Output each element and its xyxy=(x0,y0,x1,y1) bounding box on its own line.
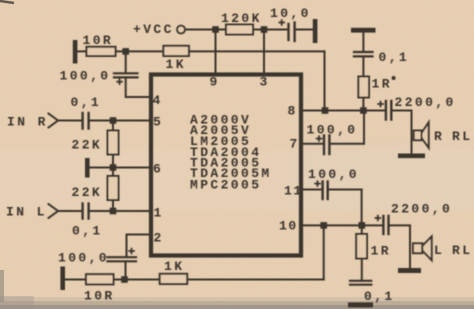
node 120K/pin3 junction xyxy=(261,26,268,33)
ground top-right xyxy=(351,28,376,33)
node VCC/pin9 junction xyxy=(212,26,219,33)
ground bar right of 10,0 xyxy=(313,19,318,43)
wire: rise from bottom rail to pin 10 line xyxy=(323,225,325,279)
capacitor 100,0 pin7 plates xyxy=(323,136,325,155)
node pin10/bottomrail junction xyxy=(320,222,327,229)
input arrow IN L xyxy=(49,204,59,218)
wire: pin7 cap up to pin 8 line xyxy=(363,111,365,144)
capacitor 0,1 bottom plates xyxy=(350,280,371,282)
wire: pin 10 output line xyxy=(303,224,383,226)
wire: pin 3 drop xyxy=(263,30,265,73)
capacitor 2200,0 bottom plates xyxy=(382,216,384,234)
wire: 1R to 0,1 cap xyxy=(361,259,363,281)
plus of 2200,0 top xyxy=(377,103,384,105)
wire: drop from 1K rail to pin 8 line xyxy=(324,51,326,110)
wire: ground to pin 6 xyxy=(90,167,149,169)
wire: pin 2 branch to 100,0 cap xyxy=(127,235,150,257)
wire: bottom feedback rail xyxy=(65,279,324,281)
wire: rail from 10,0 cap to ground xyxy=(295,29,313,31)
capacitor 2200,0 top plates xyxy=(385,101,387,120)
resistor 120K xyxy=(226,25,253,35)
plus of 2200,0 bottom xyxy=(375,217,382,219)
wire: 1K feedback rail xyxy=(78,50,325,52)
wire: IN R line xyxy=(58,120,82,122)
capacitor 100,0 top-left plates xyxy=(114,72,138,74)
node pin1 junction xyxy=(110,208,117,215)
capacitor 100,0 pin11 plates xyxy=(321,182,323,200)
ground bottom-right xyxy=(348,302,373,307)
capacitor 0,1 top-right plates xyxy=(354,51,373,53)
input arrow IN R xyxy=(49,114,59,128)
wire: cap to bottom rail xyxy=(125,262,127,279)
plus signs xyxy=(116,19,384,254)
ground under R speaker xyxy=(398,154,425,159)
resistor 10R bottom xyxy=(86,274,114,284)
resistor 1K top xyxy=(163,46,189,56)
resistor 10R top xyxy=(87,47,116,56)
ground top-left xyxy=(73,40,78,64)
wire: IN L line xyxy=(58,210,82,212)
wire: pin10 junction down through 1R to 0,1 xyxy=(361,225,363,234)
wire: cap to 1R xyxy=(362,57,364,76)
plus of 100,0 bottom-left xyxy=(128,250,135,252)
wire: pin 8 output line xyxy=(303,110,386,112)
resistor 1R top xyxy=(358,77,369,98)
wire: pin 11 line xyxy=(303,189,322,191)
wire: junction to 100,0 cap (pin 4 branch) xyxy=(125,51,127,72)
capacitor 0,1 IN R plates xyxy=(81,113,83,129)
wire: pin 7 line xyxy=(303,143,324,145)
resistor 1R bottom xyxy=(356,234,367,259)
plus of 100,0 pin7 xyxy=(316,138,323,140)
wire: cap to L speaker xyxy=(389,225,410,268)
wire: cap to R speaker xyxy=(392,111,412,154)
capacitor 10,0 plates xyxy=(287,24,289,40)
resistor 22K lower xyxy=(108,176,119,200)
plus of 100,0 pin11 xyxy=(314,183,321,185)
ground mid-left xyxy=(85,158,90,178)
ground under L speaker xyxy=(398,268,421,273)
capacitor 100,0 bottom-left plates xyxy=(108,256,137,258)
wire: pin11 cap down to pin 10 line xyxy=(361,190,363,226)
artifact dot near 1R xyxy=(392,76,396,80)
plus of 100,0 top-left xyxy=(116,81,123,83)
wire: cap to pin 4 xyxy=(126,78,149,97)
resistor 1K bottom xyxy=(160,274,188,284)
node pin8/1Krail junction xyxy=(322,107,329,114)
wire: pin 9 drop xyxy=(215,30,217,73)
IC box U1 xyxy=(151,75,301,256)
node pin6 junction xyxy=(110,164,117,171)
wire: ground to 0,1 cap xyxy=(362,33,364,51)
node +VCC terminal circle xyxy=(177,26,185,34)
wire: bias divider column xyxy=(112,121,114,212)
node pin8/1R junction xyxy=(360,107,367,114)
ground bottom-left xyxy=(60,267,65,291)
wire: 1R to pin 8 line xyxy=(362,98,364,111)
node 10R/1K/100,0 junction xyxy=(122,48,129,55)
wire: +VCC rail xyxy=(186,29,289,31)
speaker R RL xyxy=(414,131,422,141)
node pin10/1R junction xyxy=(359,222,366,229)
speaker L RL xyxy=(413,243,422,253)
node pin5 junction xyxy=(110,117,117,124)
node bottom rail junction xyxy=(121,276,128,283)
resistor 22K upper xyxy=(108,131,119,155)
plus of 10,0 xyxy=(279,22,286,24)
capacitor 0,1 IN L plates xyxy=(81,204,83,219)
